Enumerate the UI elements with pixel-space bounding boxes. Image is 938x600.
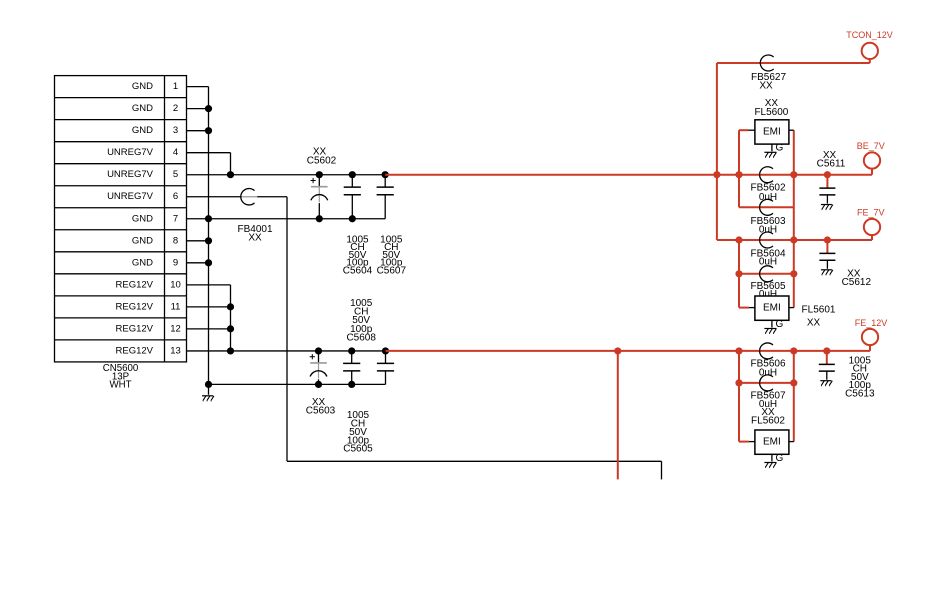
wire FE_12V rail (red) xyxy=(386,350,871,352)
junction C5604 bottom xyxy=(349,215,356,222)
wire pin9 stub xyxy=(187,262,209,264)
svg-text:G: G xyxy=(776,319,784,330)
wire FL5601 left pin stub xyxy=(749,307,755,309)
svg-text:XX: XX xyxy=(807,317,821,328)
svg-text:13: 13 xyxy=(170,345,181,356)
capacitor C5607 xyxy=(377,175,394,219)
svg-text:UNREG7V: UNREG7V xyxy=(107,169,154,180)
junction C5608 bottom xyxy=(348,381,355,388)
value label C5605 xyxy=(343,410,373,455)
svg-text:C5607: C5607 xyxy=(377,266,407,277)
svg-text:UNREG7V: UNREG7V xyxy=(107,147,154,158)
svg-text:FE_7V: FE_7V xyxy=(857,208,885,218)
value label C5607 xyxy=(377,234,407,276)
svg-text:0uH: 0uH xyxy=(759,224,777,235)
svg-text:EMI: EMI xyxy=(763,126,781,137)
svg-text:BE_7V: BE_7V xyxy=(857,141,885,151)
wire pin4 stub xyxy=(187,152,231,154)
svg-text:C5613: C5613 xyxy=(845,388,875,399)
junction FE_12V rail / drop vertical xyxy=(614,347,621,354)
junction right vertical / BE rail xyxy=(790,171,797,178)
junction C5608 top xyxy=(348,347,355,354)
junction left vertical / FE_12V rail xyxy=(735,347,742,354)
ferrite bead FB5606 xyxy=(750,343,785,378)
junction left vertical / BE rail xyxy=(735,171,742,178)
svg-text:WHT: WHT xyxy=(109,380,131,391)
wire FL5600 left pin red xyxy=(739,129,749,131)
wire GND bus vertical xyxy=(208,87,210,385)
wire pin1 to GND bus xyxy=(187,86,209,88)
svg-text:GND: GND xyxy=(132,257,153,268)
wire FB5605 loop rail xyxy=(739,273,794,275)
wire FB4001 to corner xyxy=(257,196,287,198)
svg-text:GND: GND xyxy=(132,103,153,114)
svg-text:C5608: C5608 xyxy=(346,333,376,344)
ferrite bead FB5604 xyxy=(750,232,785,268)
svg-text:5: 5 xyxy=(173,169,178,180)
junction pin7/GND bus xyxy=(205,215,212,222)
junction C5604 top xyxy=(349,171,356,178)
svg-text:4: 4 xyxy=(173,147,178,158)
junction FB5605 loop left xyxy=(735,270,742,277)
junction FB5607 loop left xyxy=(735,379,742,386)
svg-text:C5603: C5603 xyxy=(306,406,336,417)
svg-text:REG12V: REG12V xyxy=(116,301,154,312)
wire pin3 stub xyxy=(187,130,209,132)
wire pin6 to FB4001 xyxy=(187,196,241,198)
junction FB5605 loop right xyxy=(790,270,797,277)
svg-text:TCON_12V: TCON_12V xyxy=(846,30,893,40)
wire red drop vertical xyxy=(617,351,619,479)
junction C5603 top xyxy=(315,347,322,354)
svg-text:FL5601: FL5601 xyxy=(802,305,836,316)
wire FL5600 right pin stub xyxy=(789,129,794,131)
junction C5605 top / red net start xyxy=(382,347,389,354)
wire FL5602 right pin stub xyxy=(789,441,794,443)
port FE_7V xyxy=(857,208,885,236)
svg-text:GND: GND xyxy=(132,125,153,136)
junction pin13/REG bus xyxy=(227,347,234,354)
EMI filter FL5600 xyxy=(755,120,789,158)
wire pin7 GND rail (bottom rail of upper cap bank) xyxy=(187,218,386,220)
junction C5602 top xyxy=(316,171,323,178)
capacitor C5613 with ground xyxy=(819,351,835,386)
svg-text:C5604: C5604 xyxy=(343,266,373,277)
label FL5601 xyxy=(802,305,836,329)
ferrite bead FB5603 xyxy=(750,199,785,235)
wire BE port stem xyxy=(871,168,873,175)
junction GND bus/bottom rail xyxy=(205,381,212,388)
capacitor C5602 (electrolytic) xyxy=(307,147,337,219)
wire left vertical FE rail to FL5601 pin xyxy=(738,240,740,308)
capacitor C5608 xyxy=(343,351,360,384)
wire pin8 stub xyxy=(187,240,209,242)
wire bottom right drop xyxy=(661,461,663,479)
wire pin13 REG12V rail to caps xyxy=(187,350,386,352)
capacitor C5603 (electrolytic) xyxy=(306,351,336,417)
svg-text:1: 1 xyxy=(173,81,178,92)
wire FE_7V port stem xyxy=(871,234,873,240)
wire BE_7V rail (red) xyxy=(385,174,872,176)
label FL5600 xyxy=(754,98,788,118)
svg-text:12: 12 xyxy=(170,323,181,334)
svg-text:9: 9 xyxy=(173,257,178,268)
svg-text:7: 7 xyxy=(173,213,178,224)
svg-text:8: 8 xyxy=(173,235,178,246)
svg-text:XX: XX xyxy=(759,81,773,92)
svg-text:C5611: C5611 xyxy=(817,158,846,169)
wire right vertical FE12 group xyxy=(793,351,795,442)
port BE_7V xyxy=(857,141,885,168)
svg-text:EMI: EMI xyxy=(763,437,781,448)
junction pin12/REG bus xyxy=(227,325,234,332)
svg-text:3: 3 xyxy=(173,125,178,136)
port TCON_12V xyxy=(846,30,893,59)
svg-text:C5602: C5602 xyxy=(307,155,337,166)
junction pin11/REG bus xyxy=(227,303,234,310)
wire FE_12V port stem xyxy=(869,344,871,351)
junction left vertical / FE_7V rail xyxy=(735,236,742,243)
ferrite bead FB5602 xyxy=(750,167,785,203)
wire pin10 stub xyxy=(187,284,231,286)
wire right vertical FL5600 pin down to FL5601 pin xyxy=(793,130,795,307)
svg-text:2: 2 xyxy=(173,103,178,114)
wire FL5600 left pin stub xyxy=(749,129,755,131)
svg-text:GND: GND xyxy=(132,235,153,246)
svg-text:REG12V: REG12V xyxy=(116,323,154,334)
ferrite bead FB4001 xyxy=(237,189,272,244)
connector CN5600 13P WHT xyxy=(55,76,187,391)
wire FB5603 loop rail xyxy=(739,206,794,208)
svg-text:FL5600: FL5600 xyxy=(754,107,788,118)
svg-text:11: 11 xyxy=(171,301,181,312)
value label C5608 xyxy=(346,298,376,344)
svg-text:GND: GND xyxy=(132,213,153,224)
ferrite bead FB5605 xyxy=(750,266,785,300)
wire pin11 stub xyxy=(187,306,231,308)
wire lower bank bottom GND rail xyxy=(209,383,386,385)
capacitor C5611 with ground xyxy=(819,175,835,210)
junction right vertical / FE_7V rail xyxy=(790,236,797,243)
label C5612 xyxy=(842,268,872,288)
junction C5611 tap xyxy=(824,171,831,178)
wire pin4 down to pin5 net xyxy=(230,153,232,175)
value label C5613 xyxy=(845,355,875,399)
wire REG12V bus vertical xyxy=(230,285,232,351)
capacitor C5612 with ground xyxy=(819,240,835,275)
wire vertical TCON to FE_7V rail xyxy=(716,63,718,240)
svg-text:0uH: 0uH xyxy=(759,367,777,378)
wire horizontal bottom xyxy=(287,460,662,462)
junction pin2/GND bus xyxy=(205,105,212,112)
capacitor C5605 xyxy=(377,351,394,384)
svg-text:G: G xyxy=(776,143,784,154)
ground symbol at GND bus bottom xyxy=(208,384,210,394)
wire pin2 stub xyxy=(187,108,209,110)
junction C5613 tap xyxy=(823,347,830,354)
ferrite bead FB5627 xyxy=(751,55,786,92)
value label C5604 xyxy=(343,234,373,276)
capacitor C5604 xyxy=(344,175,361,219)
junction C5602 bottom xyxy=(316,215,323,222)
wire FL5602 left pin stub xyxy=(749,441,755,443)
wire through FB4001 (gray) xyxy=(241,196,257,198)
svg-text:6: 6 xyxy=(173,191,178,202)
junction pin9/GND bus xyxy=(205,259,212,266)
wire vertical from FB4001 down xyxy=(286,197,288,462)
EMI filter FL5602 xyxy=(755,430,789,468)
wire FL5602 left pin red xyxy=(739,441,749,443)
ferrite bead FB5607 xyxy=(750,375,785,410)
wire left vertical FE12 group xyxy=(738,351,740,442)
svg-text:FL5602: FL5602 xyxy=(751,416,785,427)
svg-text:10: 10 xyxy=(170,279,181,290)
EMI filter FL5601 xyxy=(755,296,789,334)
svg-text:REG12V: REG12V xyxy=(116,345,154,356)
svg-text:C5612: C5612 xyxy=(842,277,872,288)
svg-text:GND: GND xyxy=(132,81,153,92)
svg-text:FE_12V: FE_12V xyxy=(855,318,888,328)
wire FB5607 loop rail xyxy=(739,382,794,384)
wire pin12 stub xyxy=(187,328,231,330)
port FE_12V xyxy=(855,318,888,345)
wire FL5601 left pin red xyxy=(739,307,749,309)
junction pin8/GND bus xyxy=(205,237,212,244)
junction C5607 top / red net start xyxy=(382,171,389,178)
junction C5603 bottom xyxy=(315,381,322,388)
wire pin5 UNREG7V rail to caps xyxy=(187,174,386,176)
wire TCON_12V rail (red) xyxy=(717,62,870,64)
wire TCON port stem xyxy=(869,58,871,63)
svg-text:EMI: EMI xyxy=(763,303,781,314)
svg-text:REG12V: REG12V xyxy=(116,279,154,290)
junction right vertical / FE_12V rail xyxy=(790,347,797,354)
label C5611 xyxy=(817,150,846,170)
wire left vertical FL5600 pin to FB5603 loop xyxy=(738,130,740,207)
wire FL5601 right pin stub xyxy=(789,307,794,309)
svg-text:UNREG7V: UNREG7V xyxy=(107,191,154,202)
svg-text:G: G xyxy=(776,453,784,464)
junction pin3/GND bus xyxy=(205,127,212,134)
label FL5602 xyxy=(751,407,785,427)
svg-text:XX: XX xyxy=(248,233,262,244)
junction FB5607 loop right xyxy=(790,379,797,386)
junction C5612 tap xyxy=(824,236,831,243)
junction vertical/BE rail xyxy=(713,171,720,178)
svg-text:C5605: C5605 xyxy=(343,444,373,455)
junction pin4/pin5 wire xyxy=(227,171,234,178)
wire FE_7V rail (red) xyxy=(717,239,872,241)
